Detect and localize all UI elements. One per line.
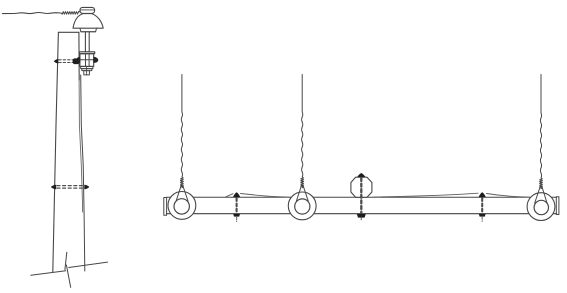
clamp foot (84, 71, 90, 75)
bar bolt 2 thread tail (481, 217, 483, 221)
ring 2 outer (white filled) (288, 192, 316, 220)
ring 1 inner eye (174, 199, 189, 214)
clamp body stem continuation left (85, 54, 87, 67)
pole top edge (58, 31, 79, 33)
spool bolt nut (dark) (357, 214, 366, 218)
clamp body (80, 54, 94, 67)
insulator cap rim line (80, 9, 94, 11)
ring 1 outer (white filled) (168, 192, 196, 220)
messenger bar top edge (167, 196, 557, 198)
conductor lying on bar: segment ring1-bolt1 (226, 194, 233, 197)
spool insulator on bar (octagon) (351, 177, 372, 197)
insulator collar (80, 28, 97, 32)
lower through-bolt hidden shank dashes (57, 185, 84, 187)
hanger 2 loop V right (303, 185, 308, 201)
clamp step 1 (81, 66, 93, 68)
bar bolt 1 nut (dark) (233, 214, 240, 217)
ground line left segment (31, 271, 66, 276)
bar bolt 2 head (dark, apex up) (479, 192, 486, 197)
hanger 1 loop V right (183, 185, 188, 201)
pole right edge inner line (79, 80, 83, 212)
conductor segment bolt1-ring2 (241, 194, 290, 198)
pole left edge (53, 32, 59, 272)
hanger 2 loop V left (296, 185, 301, 201)
pole break spike lower stroke (66, 265, 70, 287)
bar bolt 1 head (dark, apex up) (233, 192, 240, 197)
hanger 3 loop V left (535, 186, 541, 203)
hanger 1 loop V left (176, 185, 181, 201)
top through-bolt head right (dark) (73, 59, 78, 64)
conductor segment spool-bolt2 (374, 193, 478, 197)
clamp right lug (dark) (94, 57, 98, 62)
conductor segment bolt2-ring3 (487, 194, 529, 198)
top through-bolt hidden shank dashes (59, 59, 75, 61)
insulator bell skirt (73, 14, 103, 29)
clamp top plate (79, 52, 95, 54)
insulator pin stem (84, 32, 86, 52)
spool bolt thread tail (360, 218, 362, 221)
clamp body stem continuation right (88, 54, 90, 67)
bar right end cap (556, 197, 559, 215)
pole break spike upper stroke (65, 252, 67, 269)
lower through-bolt head left (dark cone) (51, 185, 56, 190)
ring 2 inner eye (295, 199, 310, 214)
pole right edge outer line (81, 75, 85, 271)
lower through-bolt head right (dark cone) (84, 185, 89, 190)
bar bolt 1 thread tail (236, 218, 238, 222)
bar left end cap (164, 198, 167, 216)
bar bolt 2 nut (dark) (479, 214, 486, 217)
messenger bar bottom edge (167, 213, 557, 215)
hanger wire 3 (540, 75, 543, 189)
ground line right segment (69, 262, 108, 267)
hanger wire 2 (301, 75, 304, 188)
hanger wire 1 (180, 75, 183, 188)
bar bolt 2 shank dashes (481, 198, 483, 213)
ring 3 inner eye (534, 200, 548, 214)
spool bolt head (dark, apex up) (357, 173, 365, 177)
clamp left lug (dark) (77, 57, 80, 62)
wire tie coil at insulator (61, 11, 81, 14)
wire conductor left span (3, 12, 62, 13)
clamp step 2 (82, 69, 92, 71)
pole right edge upper (78, 32, 80, 80)
clamp body mid horizontal (80, 59, 94, 61)
ring 3 outer (white filled) (527, 193, 555, 221)
top through-bolt head left (dark cone) (54, 59, 59, 64)
insulator cap (80, 7, 95, 13)
bar bolt 1 shank dashes (236, 198, 238, 213)
spool bolt shank dashes (360, 178, 362, 213)
hanger 3 loop V right (542, 186, 548, 204)
